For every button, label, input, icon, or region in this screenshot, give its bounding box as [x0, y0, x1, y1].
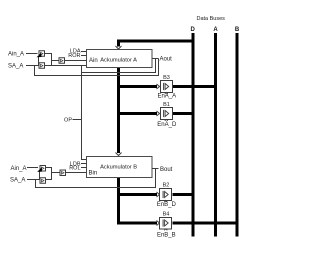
svg-text:Bin: Bin [89, 171, 98, 177]
pin Aout stub [152, 58, 159, 60]
svg-text:EnA_D: EnA_D [157, 122, 177, 128]
gate G5 lower small box B [40, 178, 46, 184]
accumulator U2 Ackumulator B [87, 157, 153, 178]
svg-text:EnB_B: EnB_B [157, 233, 176, 239]
wire B2 row right to D bus [173, 193, 194, 196]
svg-text:Ackumulator B: Ackumulator B [100, 165, 137, 171]
pin LDA stub [81, 51, 87, 53]
wire arrow drop to SA line [38, 57, 40, 66]
svg-text:EnB_D: EnB_D [157, 202, 177, 208]
svg-text:Ain: Ain [89, 58, 98, 64]
wire riser to right box A [51, 61, 53, 66]
wire arrow drop to SA line B [39, 171, 41, 180]
wire A bus [214, 33, 217, 237]
wire Accumulator A out down to B1 row [117, 68, 120, 114]
wire D bus [192, 33, 195, 237]
svg-text:Ain_A: Ain_A [8, 52, 24, 58]
wire Aout feedback inner [82, 59, 156, 73]
buffer B2 [157, 182, 177, 208]
svg-text:ROR: ROR [68, 53, 80, 59]
wire D bus to Accumulator A top [116, 41, 194, 49]
buffer B3 [157, 75, 177, 100]
junction arrow Ain_A [37, 53, 42, 58]
wire B4 row left [117, 222, 157, 225]
wire B4 row right to B bus [173, 222, 238, 225]
svg-text:B1: B1 [163, 102, 170, 108]
wire OP port into A [82, 65, 87, 67]
svg-text:B4: B4 [163, 211, 170, 217]
svg-text:B3: B3 [163, 75, 170, 81]
wire continuation down to Accumulator B top [116, 114, 122, 156]
wire merge upper B [46, 168, 52, 173]
pin ROL stub [81, 167, 87, 169]
svg-text:B: B [235, 27, 240, 33]
wire Accumulator B out down to B4 row [117, 177, 120, 223]
pin ROR stub [81, 55, 87, 57]
gate G1 upper small box A [39, 51, 45, 57]
wire B3 row left [117, 85, 157, 88]
gate G6 right small box B [60, 170, 66, 176]
svg-text:SA_A: SA_A [10, 178, 25, 184]
wire Bout feedback [36, 169, 156, 188]
svg-text:OP: OP [64, 117, 72, 123]
svg-text:EnA_A: EnA_A [157, 94, 176, 100]
svg-text:SA_A: SA_A [8, 64, 23, 70]
svg-text:Ackumulator A: Ackumulator A [100, 58, 137, 64]
pin LDB stub [81, 163, 87, 165]
svg-text:Ain_A: Ain_A [11, 166, 27, 172]
wire OP stub [73, 119, 82, 121]
svg-text:D: D [191, 27, 196, 33]
buffer B1 [157, 102, 177, 128]
wire merge lower B [46, 173, 52, 180]
wire right box A out to Ain [65, 60, 87, 62]
wire OP vertical [82, 66, 87, 160]
junction arrow Ain_A B [37, 167, 42, 172]
wire Ain_A line B [27, 167, 38, 169]
wire B bus [236, 33, 239, 237]
gate G4 upper small box B [40, 166, 46, 172]
accumulator U1 Ackumulator A [87, 50, 153, 68]
wire B2 row left [117, 193, 157, 196]
svg-text:ROL: ROL [69, 166, 80, 172]
pin Bout stub [152, 168, 159, 170]
wire B1 row right to D bus [173, 112, 194, 115]
wire SA_A line B [27, 179, 40, 181]
wire merge to right box A [52, 60, 60, 62]
svg-text:Aout: Aout [160, 57, 173, 63]
wire B3 row right to A bus [173, 85, 216, 88]
wire merge to right box B [52, 172, 61, 174]
svg-text:Bout: Bout [160, 167, 173, 173]
wire B1 row left [117, 112, 157, 115]
wire SA_A line [26, 65, 39, 67]
wire merge lower A [45, 65, 82, 67]
gate G3 right small box A [59, 58, 65, 64]
gate G2 lower small box A [39, 63, 45, 69]
buffer B4 [157, 211, 176, 238]
wire Aout feedback outer [35, 59, 159, 76]
wire Ain_A line [26, 53, 38, 55]
svg-text:A: A [213, 27, 218, 33]
svg-text:B2: B2 [163, 182, 170, 188]
svg-text:Data Buses: Data Buses [196, 16, 225, 22]
wire right box B out to Bin [66, 172, 87, 174]
wire merge upper A [45, 54, 52, 61]
